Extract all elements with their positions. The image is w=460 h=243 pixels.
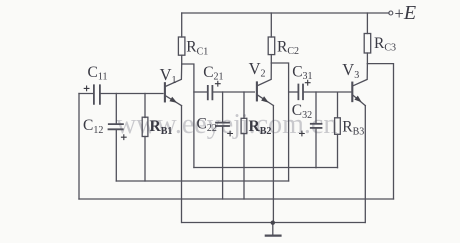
svg-text:RB3: RB3 — [342, 119, 364, 138]
svg-text:C11: C11 — [88, 64, 108, 83]
svg-text:RC3: RC3 — [374, 35, 396, 54]
svg-text:C12: C12 — [83, 117, 103, 136]
svg-text:V2: V2 — [249, 59, 266, 80]
svg-text:RC2: RC2 — [277, 38, 299, 57]
svg-text:C32: C32 — [292, 102, 312, 121]
svg-text:C31: C31 — [292, 63, 312, 82]
svg-text:+E: +E — [395, 2, 417, 24]
svg-text:RC1: RC1 — [186, 39, 208, 58]
svg-text:V1: V1 — [160, 65, 177, 86]
svg-text:C21: C21 — [203, 64, 223, 83]
svg-text:V3: V3 — [342, 60, 359, 81]
